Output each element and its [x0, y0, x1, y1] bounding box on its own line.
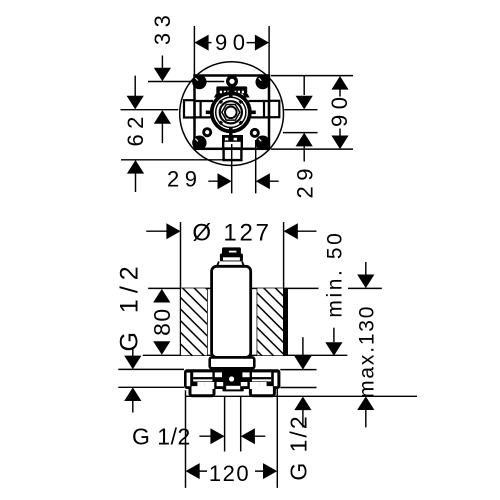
svg-text:120: 120	[209, 461, 250, 486]
svg-text:33: 33	[150, 10, 175, 45]
svg-text:G 1/2: G 1/2	[286, 414, 312, 480]
svg-text:90: 90	[215, 30, 250, 55]
svg-text:min. 50: min. 50	[323, 231, 346, 318]
svg-text:80: 80	[149, 307, 175, 336]
svg-text:max.130: max.130	[355, 305, 378, 398]
svg-text:62: 62	[123, 111, 148, 146]
svg-text:29: 29	[167, 167, 202, 192]
svg-text:29: 29	[292, 163, 317, 198]
svg-text:Ø 127: Ø 127	[192, 219, 271, 246]
svg-text:G 1/2: G 1/2	[132, 423, 191, 449]
svg-text:90: 90	[327, 91, 352, 126]
svg-text:G 1/2: G 1/2	[116, 260, 144, 351]
